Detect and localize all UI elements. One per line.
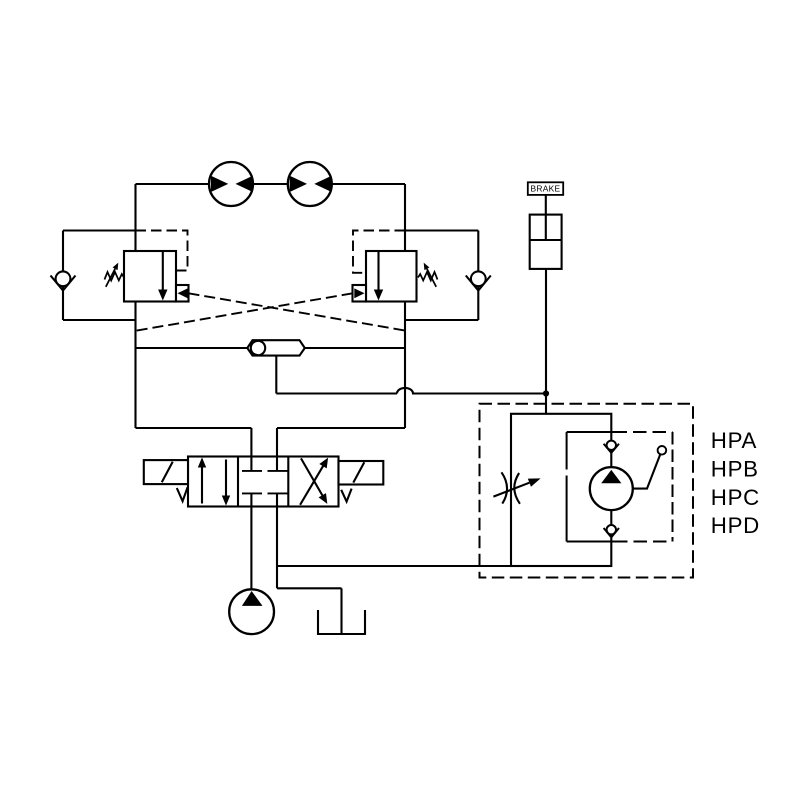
motor M2 triangles [290, 176, 332, 192]
check valve CV1 seat [51, 276, 76, 291]
hand pump enclosure right edge [672, 432, 674, 542]
directional valve DV1 body [188, 457, 339, 507]
directional valve DV1 solenoid slashes [162, 462, 364, 483]
wire left main vertical [134, 184, 136, 428]
counterbalance valve CB2 adjust arrow [424, 263, 437, 287]
hand pump HP1 lever knob [658, 446, 667, 455]
divider DV1 squares [238, 457, 288, 507]
flow control FC1 arcs [502, 472, 520, 504]
junction node [543, 390, 549, 396]
directional valve DV1 solenoid right [339, 461, 384, 485]
svg-text:HPC: HPC [711, 485, 760, 510]
directional valve DV1 centre dashes [242, 471, 288, 494]
hand pump check valve CV4 seat [604, 528, 619, 537]
wire valve port A drop [250, 428, 252, 457]
hand pump check valve CV3 seat [604, 444, 619, 453]
wire shuttle horizontal [136, 347, 406, 349]
wire left bypass top [63, 229, 136, 231]
hand pump HP1 triangle [601, 470, 621, 483]
hand pump check valve CV3 circle [607, 441, 616, 450]
wire right bypass top [405, 229, 478, 231]
directional valve DV1 centre ports [251, 457, 277, 507]
motor M1 triangles [211, 176, 253, 192]
hand pump HP1 lever [633, 454, 661, 488]
pump P1 [229, 589, 274, 634]
wire left bypass vertical [62, 231, 64, 321]
hand pump HP1 circle [590, 467, 633, 510]
counterbalance valve CB1 pilot arrowhead [178, 288, 188, 298]
pilot line CB1 top dashed [136, 231, 188, 271]
wire tank run [277, 587, 342, 589]
counterbalance valve CB1 spring [105, 272, 125, 281]
wire bottom header right [277, 427, 405, 429]
wire valve T down [276, 507, 278, 589]
brake label box [528, 182, 563, 195]
counterbalance valve CB1 pilot port box [176, 285, 189, 302]
svg-text:BRAKE: BRAKE [531, 184, 561, 194]
shuttle valve SV1 ball [251, 341, 265, 355]
directional valve DV1 right position cross arrows [300, 458, 328, 505]
counterbalance valve CB1 body [124, 251, 176, 302]
wire left bypass bottom [63, 319, 136, 321]
wire right main vertical [404, 184, 406, 428]
wire hand pump circuit loop [511, 414, 611, 566]
check valve CV2 seat [466, 276, 491, 291]
brake cylinder body [530, 215, 562, 269]
counterbalance valve CB2 pilot arrowhead [354, 288, 364, 298]
counterbalance valve CB2 pilot port box [353, 285, 367, 302]
outer dashed enclosure [480, 404, 694, 578]
wire pressure branch to right block [277, 565, 511, 567]
wire crossover hop [397, 388, 413, 394]
directional valve DV1 left position arrows [198, 457, 230, 505]
svg-text:HPA: HPA [711, 428, 757, 453]
svg-text:HPB: HPB [711, 457, 759, 482]
hand pump check valve CV4 circle [607, 525, 616, 534]
svg-text:HPD: HPD [711, 513, 760, 538]
wire top header motors [136, 183, 406, 185]
counterbalance valve CB2 spring [418, 272, 438, 281]
pilot line cross X2 dashed [136, 293, 353, 331]
wire valve P to pump [250, 507, 252, 590]
wire hop to junction [412, 392, 546, 394]
motor M1 [209, 162, 253, 206]
hand pump enclosure top edge [567, 431, 627, 433]
wire right bypass vertical [477, 231, 479, 321]
pilot line CB2 top dashed [353, 231, 405, 273]
wire bottom header left [136, 427, 252, 429]
motor M2 [288, 162, 332, 206]
brake cylinder rod [545, 195, 547, 240]
directional valve DV1 solenoid left [144, 460, 188, 484]
wire junction into right block [545, 394, 547, 414]
wire tank drop [340, 588, 342, 634]
pilot line cross X1 dashed [189, 293, 406, 330]
brake cylinder piston [530, 239, 562, 241]
wire valve port B drop [276, 428, 278, 457]
wire brake cylinder to junction [545, 269, 547, 394]
pump P1 triangle [242, 591, 263, 606]
hand pump enclosure bottom edge [567, 541, 628, 543]
wire shuttle output drop [275, 356, 277, 394]
directional valve DV1 springs [177, 487, 352, 501]
counterbalance valve CB2 body [366, 251, 417, 302]
hand pump enclosure left edge [566, 432, 568, 542]
flow control FC1 adjust arrow [493, 478, 540, 496]
wire shuttle output to brake junction [276, 392, 397, 394]
wire right bypass bottom [405, 319, 478, 321]
tank T1 [318, 610, 365, 634]
check valve CV1 circle [56, 271, 71, 286]
check valve CV2 circle [471, 271, 486, 286]
counterbalance valve CB1 flow arrow [158, 251, 167, 301]
shuttle valve SV1 body [247, 340, 304, 355]
counterbalance valve CB2 flow arrow [374, 251, 383, 301]
counterbalance valve CB1 adjust arrow [106, 263, 119, 287]
